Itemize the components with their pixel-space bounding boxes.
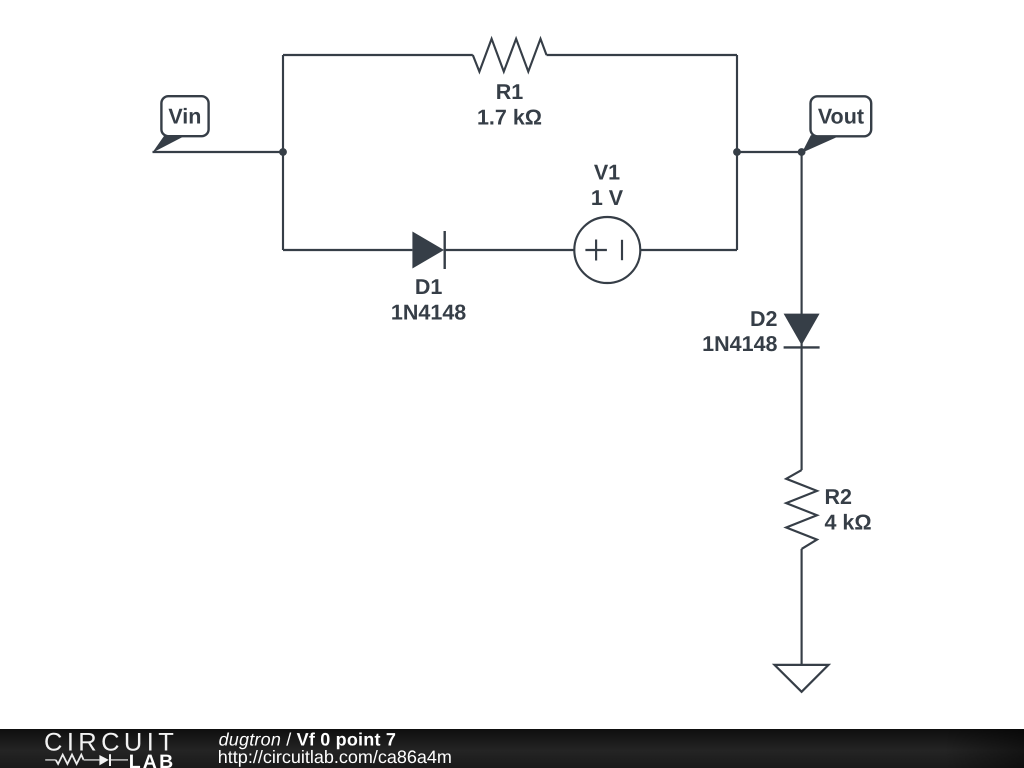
node right loop junction xyxy=(733,148,741,156)
flag Vout box xyxy=(811,96,872,136)
svg-text:D1: D1 xyxy=(415,275,443,299)
svg-text:1N4148: 1N4148 xyxy=(391,301,466,325)
wire top-right segment xyxy=(547,54,738,56)
flag Vout tail xyxy=(802,135,838,153)
diode D1 xyxy=(412,231,444,269)
logo mini resistor xyxy=(45,759,56,761)
resistor R2 xyxy=(786,470,817,549)
svg-text:1.7 kΩ: 1.7 kΩ xyxy=(477,105,542,129)
node Vout junction xyxy=(798,148,806,156)
svg-text:Vout: Vout xyxy=(818,105,864,129)
wire V1 to right vertical xyxy=(640,249,737,251)
wire node to Vout node xyxy=(737,151,802,153)
wire right vertical xyxy=(736,55,738,250)
diode D2 xyxy=(784,314,820,348)
wire top-left segment xyxy=(283,54,473,56)
svg-text:1 V: 1 V xyxy=(591,186,624,210)
svg-text:1N4148: 1N4148 xyxy=(702,332,777,356)
node Vin junction xyxy=(279,148,287,156)
voltage source V1 xyxy=(574,217,640,283)
ground xyxy=(775,665,829,692)
resistor R1 xyxy=(473,39,547,72)
svg-text:4 kΩ: 4 kΩ xyxy=(825,510,872,534)
flag Vin box xyxy=(161,96,208,136)
wire left vertical xyxy=(282,55,284,250)
svg-text:LAB: LAB xyxy=(129,751,176,768)
wire D1 to V1 xyxy=(445,249,575,251)
svg-text:D2: D2 xyxy=(750,307,778,331)
svg-text:R1: R1 xyxy=(496,80,524,104)
wire R2 to ground xyxy=(801,549,803,665)
svg-text:http://circuitlab.com/ca86a4m: http://circuitlab.com/ca86a4m xyxy=(218,747,452,767)
wire Vin to node xyxy=(153,151,284,153)
wire Vout vertical to D2 xyxy=(801,152,803,470)
svg-text:V1: V1 xyxy=(594,160,620,184)
logo mini diode xyxy=(99,755,108,765)
svg-text:R2: R2 xyxy=(825,485,853,509)
flag Vin tail xyxy=(152,135,186,153)
wire bottom branch left xyxy=(283,249,412,251)
svg-text:Vin: Vin xyxy=(168,105,201,129)
